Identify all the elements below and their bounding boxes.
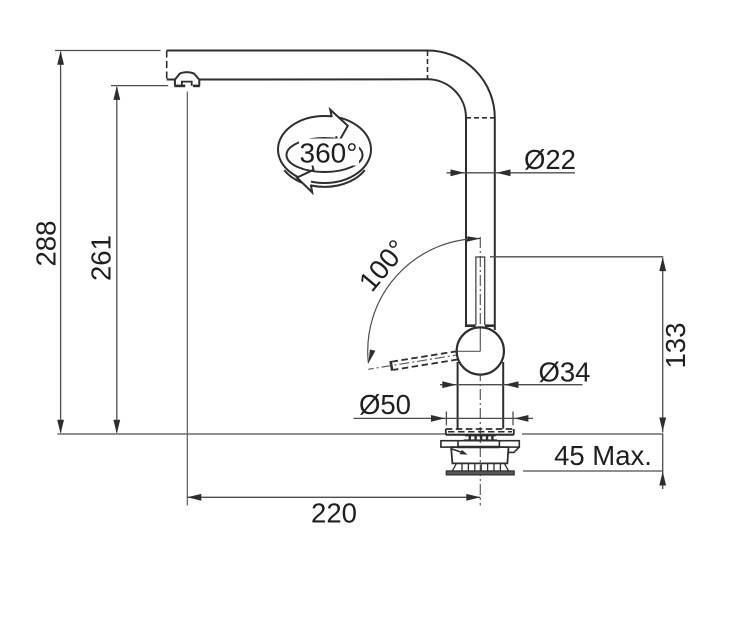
arrow O34 right xyxy=(505,381,519,388)
arrow 220 left xyxy=(187,494,201,501)
label O50 xyxy=(359,389,411,420)
svg-text:261: 261 xyxy=(86,235,117,281)
label 261 xyxy=(86,235,117,281)
dimension 220 xyxy=(187,496,480,498)
lever end cap xyxy=(391,361,393,371)
threaded shank xyxy=(452,463,508,471)
arrow 100 bottom xyxy=(368,350,375,364)
dimension 133 xyxy=(490,257,663,489)
arrow 261 top xyxy=(113,86,120,100)
svg-text:220: 220 xyxy=(311,498,357,529)
tube to ball joint xyxy=(466,324,495,327)
spout tube outline xyxy=(167,51,495,331)
mounting body xyxy=(451,447,508,463)
label O22 xyxy=(524,144,576,175)
svg-text:100°: 100° xyxy=(353,234,413,298)
ball joint xyxy=(457,327,504,374)
svg-text:288: 288 xyxy=(31,221,62,267)
angle vertex lines xyxy=(458,329,481,352)
arrow O50 right xyxy=(514,415,528,422)
arrow O22 left xyxy=(451,169,465,176)
base flange xyxy=(446,429,514,435)
arrow O34 left xyxy=(442,381,456,388)
label 45 Max xyxy=(554,440,652,471)
bend tangent hidden lines xyxy=(428,51,495,118)
svg-text:Ø50: Ø50 xyxy=(359,389,411,420)
label 220 xyxy=(311,498,357,529)
svg-text:Ø34: Ø34 xyxy=(539,357,591,388)
valve body xyxy=(458,362,504,429)
clamp screw pointer xyxy=(451,449,468,455)
mounting plate xyxy=(441,441,519,453)
label 360 degrees xyxy=(300,138,358,169)
dimension 261 xyxy=(111,86,168,433)
spout hidden edge left end xyxy=(166,51,168,80)
label 288 xyxy=(31,221,62,267)
aerator centerline xyxy=(186,92,188,506)
label O34 xyxy=(539,357,591,388)
label 133 xyxy=(660,323,691,369)
lever centerline xyxy=(368,351,480,369)
arrow 288 bottom xyxy=(57,420,64,434)
deck reference line xyxy=(58,433,664,435)
arrow 45max up xyxy=(659,472,666,486)
svg-text:Ø22: Ø22 xyxy=(524,144,576,175)
dimension O22 xyxy=(447,172,576,174)
arrow 100 top xyxy=(467,236,480,242)
svg-text:360°: 360° xyxy=(300,138,358,169)
faucet centerline xyxy=(479,237,481,506)
arrow O50 left xyxy=(431,415,445,422)
arrow 261 bottom xyxy=(113,420,120,434)
label 360 degrees background xyxy=(299,139,359,166)
360 arrow bottom left xyxy=(297,162,313,192)
arrow O22 right xyxy=(497,169,511,176)
arrow 133 bottom xyxy=(659,418,666,432)
arrow 220 right xyxy=(466,494,480,501)
pull-out hose xyxy=(476,257,485,325)
360 arrow top right xyxy=(330,110,348,144)
dimension 288 xyxy=(55,51,161,433)
gasket layer xyxy=(464,436,497,440)
aerator xyxy=(174,72,200,86)
360 degree rotation symbol band xyxy=(278,116,371,187)
dimension O50 xyxy=(354,412,533,426)
arrow 133 top xyxy=(659,257,666,271)
lock nut washer xyxy=(446,471,514,475)
dimension 45 Max xyxy=(523,470,663,472)
100 degree arc xyxy=(368,238,481,363)
svg-text:133: 133 xyxy=(660,323,691,369)
label 100 degrees xyxy=(353,234,413,298)
svg-text:45 Max.: 45 Max. xyxy=(554,440,652,471)
dimension O34 xyxy=(440,384,583,386)
handle lever xyxy=(392,351,457,370)
arrow 288 top xyxy=(57,51,64,65)
